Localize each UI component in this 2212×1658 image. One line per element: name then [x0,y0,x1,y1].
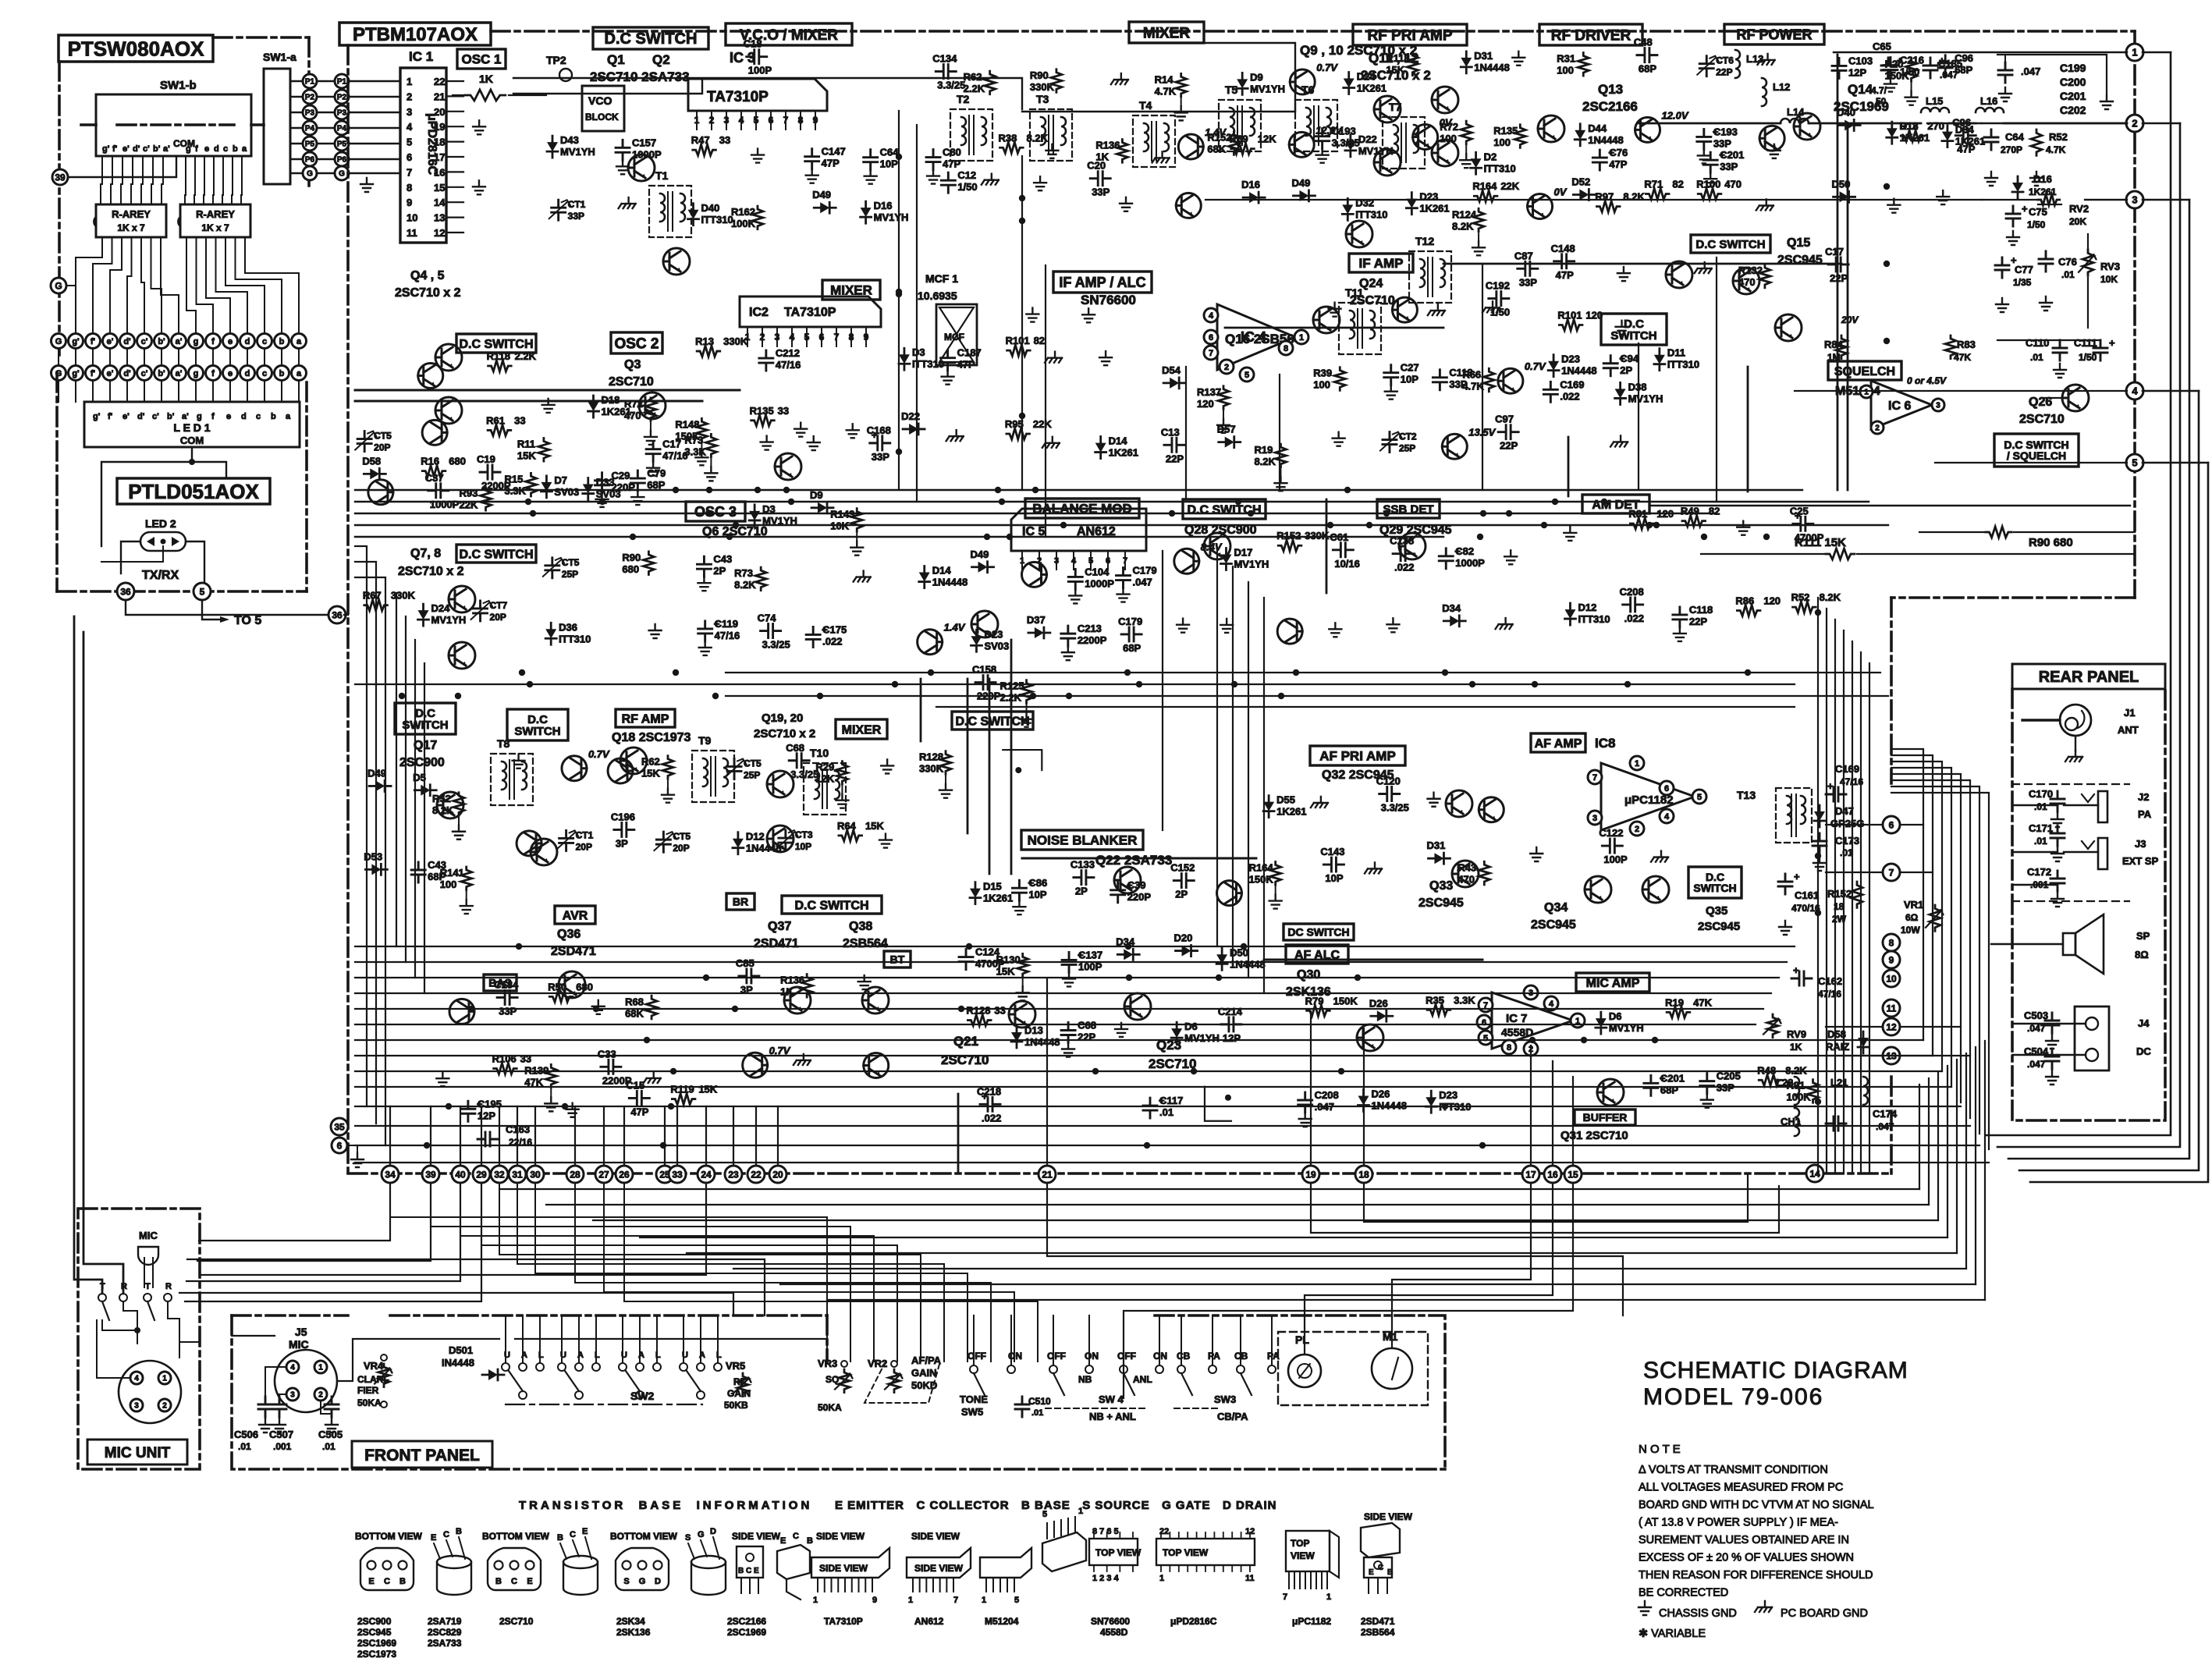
diode D247 [1358,1090,1369,1112]
svg-text:2SD471: 2SD471 [1361,1616,1395,1627]
svg-text:C137: C137 [1078,949,1102,960]
svg-text:R: R [165,1282,172,1291]
resistor R164 [1793,602,1816,612]
ground [1115,1023,1127,1037]
capacitor C299 [1703,152,1717,172]
svg-text:OSC 2: OSC 2 [614,336,659,352]
svg-text:S: S [623,1577,629,1586]
svg-text:20P: 20P [673,843,689,854]
svg-text:47K: 47K [1954,352,1971,363]
svg-text:16: 16 [1547,1169,1558,1180]
label SQUELCH IC6 [1828,361,1901,380]
svg-text:22K: 22K [1500,180,1519,192]
resistor R118 [696,418,707,442]
svg-text:33P: 33P [1519,276,1537,288]
svg-text:33: 33 [672,1169,683,1180]
svg-text:CT5: CT5 [744,758,762,769]
svg-text:150K: 150K [1333,995,1358,1007]
transistor Q17 [437,792,463,818]
capacitor C156 [1393,547,1413,561]
connector pins P1-P6 G left column [290,80,303,82]
transistor Q30 [1357,1024,1383,1051]
resistor R8 [693,144,716,155]
resistor R119 [751,415,775,426]
svg-text:R83: R83 [1957,339,1976,350]
svg-text:C96: C96 [1955,52,1973,64]
svg-text:CT2: CT2 [1399,431,1417,442]
svg-text:J4: J4 [2138,1017,2150,1029]
capacitor C65 4.7/50 [1881,58,1895,78]
svg-text:3.3/25: 3.3/25 [937,80,965,91]
svg-text:1N4448: 1N4448 [1561,365,1597,377]
svg-text:20: 20 [772,1169,783,1180]
svg-text:4558D: 4558D [1501,1026,1533,1038]
capacitor C65 [1938,55,1952,76]
svg-text:100K: 100K [1787,1092,1812,1103]
svg-text:22: 22 [751,1169,762,1180]
svg-text:ITT310: ITT310 [701,214,733,225]
capacitor C201 [1012,880,1026,900]
svg-text:47K: 47K [524,1076,543,1088]
resistor R80 [697,346,720,357]
svg-text:a: a [296,369,302,378]
transistor Q35 [1642,876,1669,903]
svg-text:680: 680 [449,456,466,467]
svg-text:C77: C77 [2015,264,2033,275]
svg-text:C27: C27 [1401,362,1419,374]
label AF AMP IC8 [1531,733,1585,752]
IC U8 uPC1182 opamp [1601,763,1695,830]
svg-text:a': a' [182,412,189,421]
svg-text:SIDE VIEW: SIDE VIEW [914,1563,964,1574]
diode D147 [919,566,930,588]
svg-text:RAIZ: RAIZ [1826,1041,1849,1053]
ground [542,399,555,413]
capacitor C209 [1111,882,1125,903]
svg-text:D17: D17 [1234,546,1252,558]
svg-text:BT: BT [890,953,905,966]
svg-text:22P: 22P [1078,1031,1095,1043]
capacitor C109 [1543,382,1557,402]
svg-text:2: 2 [1635,825,1639,834]
resistor R232 [494,1063,517,1074]
svg-text:e': e' [107,337,114,346]
svg-text:1/35: 1/35 [2013,277,2032,288]
resistor R77 [645,398,656,421]
ground [1530,847,1543,861]
svg-text:a: a [296,337,302,346]
svg-text:R72: R72 [1440,121,1458,133]
svg-text:22P: 22P [1166,453,1184,464]
svg-text:MV1YH: MV1YH [874,211,909,223]
svg-text:T2: T2 [957,93,970,105]
svg-text:2: 2 [318,1391,323,1400]
svg-text:R125: R125 [1000,680,1024,692]
svg-text:SWITCH: SWITCH [514,725,560,738]
capacitor C242 [739,969,759,983]
resistor array R-AREY 1Kx7 #2 [180,204,250,237]
ground [1042,437,1060,448]
svg-text:22: 22 [434,76,445,87]
svg-text:R164: R164 [1249,862,1274,874]
transistor Q39 [531,839,557,865]
svg-text:P2: P2 [305,94,315,102]
wires LED2 [121,541,140,573]
capacitor C74 [595,473,609,493]
svg-text:C133: C133 [1070,859,1095,871]
transistor Q235 [449,999,474,1024]
svg-text:2SC710: 2SC710 [941,1053,989,1067]
capacitor C20 [936,65,956,79]
svg-text:2SC945: 2SC945 [357,1627,392,1638]
svg-text:IC 7: IC 7 [1506,1012,1528,1025]
svg-text:COM: COM [173,138,195,149]
svg-text:TONE: TONE [960,1394,988,1405]
svg-text:15K: 15K [698,1084,717,1095]
svg-text:C213: C213 [1078,623,1102,634]
svg-text:8.2K: 8.2K [1785,1064,1807,1076]
ground [1512,51,1525,66]
svg-text:2P: 2P [1620,364,1632,376]
transformer T10 [804,763,846,815]
svg-text:1: 1 [1078,1507,1083,1516]
svg-text:g': g' [102,144,110,154]
svg-text:T3: T3 [1036,93,1049,105]
svg-text:2SC710 x 2: 2SC710 x 2 [398,565,464,578]
svg-text:C19: C19 [477,453,495,465]
svg-text:C174: C174 [1873,1108,1898,1120]
svg-text:3.3K: 3.3K [1454,994,1475,1006]
svg-text:Q1: Q1 [607,52,625,67]
svg-text:D37: D37 [1027,614,1046,626]
transformer T6 [1295,100,1337,151]
svg-text:P1: P1 [337,78,347,87]
resistor R294 [538,438,549,462]
svg-text:7: 7 [1592,773,1597,783]
diode D155 [1220,548,1231,570]
svg-text:C96: C96 [1952,117,1971,129]
svg-text:R91: R91 [1787,1080,1805,1092]
capacitor C254 [1644,1075,1658,1095]
svg-text:2SC900: 2SC900 [357,1616,392,1627]
svg-text:2200P: 2200P [1078,634,1107,646]
svg-text:B: B [557,1533,563,1543]
resistor R54 [1698,188,1721,199]
svg-text:BOTTOM VIEW: BOTTOM VIEW [355,1531,422,1542]
transistor Q14 [1794,113,1820,140]
capacitor C122 [697,556,711,577]
svg-text:R73: R73 [734,567,753,579]
svg-text:680: 680 [622,563,639,575]
svg-text:270P: 270P [2001,144,2022,155]
svg-text:1N4448: 1N4448 [1474,62,1510,73]
svg-text:D16: D16 [2033,173,2052,185]
svg-text:c: c [262,369,267,378]
resistor R296 [1596,201,1620,212]
capacitor C289 [1090,172,1110,186]
svg-text:MIXER: MIXER [842,723,882,737]
svg-text:B: B [399,1577,406,1586]
svg-text:R95: R95 [1005,418,1024,430]
svg-text:7: 7 [1283,1592,1287,1602]
label D.C SWITCH SQUELCH right [1994,434,2079,467]
svg-text:1N4448: 1N4448 [1024,1036,1060,1048]
svg-text:C17: C17 [1825,246,1844,257]
transistor Q6 [775,453,801,480]
svg-text:R19: R19 [1254,444,1273,456]
svg-text:e': e' [122,144,130,154]
svg-text:18: 18 [1358,1169,1369,1180]
svg-text:D49: D49 [812,189,831,201]
svg-text:COM: COM [180,435,204,446]
svg-text:C196: C196 [611,811,635,822]
transistor Q45 [1528,193,1553,218]
svg-text:J5: J5 [295,1326,307,1338]
legend pkg 2SA719 cylinder [437,1562,471,1595]
inductor L14 [1781,119,1809,123]
svg-text:b': b' [153,144,161,154]
svg-text:CB: CB [1177,1351,1191,1362]
resistor R234 [646,996,657,1019]
capacitor C168 [1623,598,1643,612]
svg-text:19: 19 [1305,1169,1316,1180]
transistor Q9 [1432,87,1458,113]
ground [1756,199,1774,210]
svg-text:B: B [1387,1568,1393,1577]
svg-text:R137: R137 [1197,386,1221,398]
svg-text:C76: C76 [1609,147,1628,158]
transistor Q16 [1313,307,1340,333]
svg-text:L12: L12 [1773,81,1790,93]
capacitor C143 [1068,569,1082,589]
ground [1768,144,1781,158]
svg-text:MIC: MIC [289,1338,309,1351]
svg-text:24: 24 [701,1169,712,1180]
node 39 [52,169,68,185]
svg-text:25P: 25P [562,569,578,580]
svg-text:R143: R143 [830,509,854,520]
svg-text:C214: C214 [1218,1006,1243,1017]
svg-text:68K: 68K [1207,144,1226,155]
ground [649,624,662,638]
svg-text:D14: D14 [1109,435,1128,447]
svg-text:C199: C199 [2060,62,2086,74]
svg-text:R39: R39 [1313,367,1332,379]
svg-text:D.C SWITCH: D.C SWITCH [794,899,868,912]
capacitor C505 .01 [321,1401,332,1414]
svg-text:MIC UNIT: MIC UNIT [105,1445,171,1461]
svg-text:TOP: TOP [1291,1538,1309,1549]
junction dots on buses [1032,487,1039,493]
svg-text:R48: R48 [1757,1064,1776,1076]
svg-text:d': d' [123,369,131,378]
svg-text:PC BOARD GND: PC BOARD GND [1781,1607,1868,1620]
node 2 [2126,115,2143,132]
svg-text:4558D: 4558D [1100,1627,1128,1638]
svg-text:VR5: VR5 [726,1360,745,1372]
svg-text:33P: 33P [1713,137,1731,149]
wire af vertical bundle [1817,598,1819,1173]
svg-text:D.C SWITCH: D.C SWITCH [605,30,698,48]
label NOISE BLANKER [1021,830,1143,850]
svg-text:10K: 10K [2100,274,2118,285]
svg-text:R136: R136 [1095,140,1120,151]
resistor R273 [525,473,536,496]
svg-text:TO 5: TO 5 [234,614,261,627]
svg-text:IN4448: IN4448 [442,1357,474,1369]
svg-text:g': g' [72,337,80,346]
svg-text:C507: C507 [269,1429,293,1440]
diode D206 [1117,949,1139,960]
svg-text:3.3K: 3.3K [504,485,526,496]
diode D126 [545,623,556,644]
svg-text:1/50: 1/50 [1490,307,1510,318]
svg-text:MODEL 79-006: MODEL 79-006 [1643,1384,1823,1410]
svg-text:P5: P5 [337,140,347,149]
jack J1 ANT [2060,705,2091,736]
label BALANCE MOD [1025,499,1139,518]
transistor Q1 [628,154,655,181]
svg-text:TA7310P: TA7310P [784,306,836,319]
transformer T7 [1383,117,1425,169]
svg-text:29: 29 [476,1169,487,1180]
diode D76 [541,476,552,498]
resistor R25 [1176,73,1187,97]
resistor R40 [1407,52,1418,76]
IC U7 4558D opamp [1492,992,1573,1049]
svg-text:34: 34 [385,1169,396,1180]
diode D39 [1573,189,1595,200]
partition dashed [2012,783,2129,785]
resistor R43 [1514,125,1525,148]
svg-text:D54: D54 [1162,364,1181,376]
legend pkg slant 5 [1042,1532,1086,1571]
svg-text:( AT 13.8 V POWER SUPPLY ): ( AT 13.8 V POWER SUPPLY ) IF MEA- [1639,1517,1838,1529]
svg-text:E: E [582,1527,588,1536]
svg-text:.01: .01 [1031,1408,1043,1418]
svg-text:.01: .01 [1159,1106,1173,1118]
svg-text:T11: T11 [1345,286,1364,299]
resistor R259 [1483,368,1494,392]
svg-text:g': g' [72,369,80,378]
svg-text:33P: 33P [1092,186,1110,198]
svg-text:B: B [456,1527,462,1536]
transistor Q25 [1775,314,1802,341]
svg-text:0.7V: 0.7V [1316,62,1338,73]
trimmer CT0 [474,601,488,621]
svg-text:2P: 2P [1175,889,1188,900]
svg-text:MV1YH: MV1YH [1234,558,1269,570]
label D.C SWITCH Q1 Q2 [593,27,708,49]
svg-text:+: + [2022,203,2028,215]
diode D245 [1426,1091,1436,1113]
wire mid horizontals 860-905 [726,672,1880,673]
svg-text:23: 23 [728,1169,739,1180]
svg-text:R52: R52 [2049,131,2068,143]
svg-text:MCF: MCF [944,332,964,343]
node 4 [2126,382,2143,399]
svg-text:Q38: Q38 [849,920,872,933]
ground [1564,527,1576,541]
svg-text:1K261: 1K261 [983,893,1013,904]
svg-text:20V: 20V [1841,314,1859,325]
label BAS [484,975,517,991]
svg-text:8.2K: 8.2K [1820,591,1841,603]
svg-text:+: + [1793,964,1799,976]
svg-text:D7: D7 [554,474,567,486]
wire bottom-left fan to mic/front [199,1183,390,1241]
board PTBM107AOX outline [339,23,491,45]
capacitor C213 [959,950,973,970]
svg-text:TX/RX: TX/RX [142,569,179,582]
diode D175 [414,785,436,796]
svg-text:21: 21 [434,91,445,102]
svg-text:R135: R135 [1493,125,1518,137]
svg-text:R47: R47 [691,134,710,146]
diode D31 [1293,190,1315,201]
wire lower horizontal bundle [355,946,1795,947]
svg-text:ON: ON [1085,1351,1099,1362]
svg-text:.01: .01 [1840,847,1853,858]
svg-text:Q18 2SC1973: Q18 2SC1973 [612,731,691,744]
svg-text:MV1YH: MV1YH [1184,1032,1220,1044]
svg-text:1K261: 1K261 [1109,447,1138,459]
svg-text:47/16: 47/16 [1840,776,1863,787]
svg-text:11: 11 [407,227,417,239]
svg-text:AF AMP: AF AMP [1535,737,1582,751]
capacitor C137 [806,627,820,647]
svg-text:1K: 1K [479,73,493,85]
svg-text:35: 35 [334,1121,345,1132]
transistor Q32 [1446,790,1472,817]
svg-text:f': f' [112,144,118,154]
svg-text:D22: D22 [901,410,920,422]
wire sw2 stubs [505,1315,506,1363]
svg-text:C195: C195 [478,1098,502,1109]
transistor Q139 [1021,562,1046,587]
svg-text:C12: C12 [957,169,976,181]
svg-text:D20: D20 [1174,932,1193,944]
svg-text:15: 15 [434,182,445,193]
svg-text:.047: .047 [1876,1121,1894,1132]
svg-text:D24: D24 [431,602,451,614]
svg-text:REAR PANEL: REAR PANEL [2039,669,2139,686]
svg-text:d: d [245,369,250,378]
svg-text:R136: R136 [780,975,804,986]
svg-text:CB/PA: CB/PA [1217,1411,1248,1422]
staircase wires R-AREY to LED pin circles [76,237,102,334]
svg-text:10P: 10P [1401,374,1418,385]
ground [1737,521,1749,535]
svg-text:1N4448: 1N4448 [1588,134,1624,146]
svg-text:68P: 68P [1660,1084,1678,1095]
transistor Q18 [620,747,647,774]
label D.C SWITCH Q15 [1691,235,1770,253]
svg-text:DC SWITCH: DC SWITCH [1287,926,1349,939]
svg-text:RF AMP: RF AMP [622,712,669,726]
svg-text:8Ω: 8Ω [2135,949,2149,960]
svg-text:L E D 1: L E D 1 [173,421,210,434]
IC U6 M51204 opamp [1871,381,1932,429]
svg-text:R164: R164 [1472,180,1497,192]
label D.C SWITCH mid [952,712,1033,730]
svg-text:R61: R61 [486,414,505,426]
svg-text:CT5: CT5 [673,831,691,842]
capacitor C17 [926,150,940,170]
ground [1152,151,1170,162]
svg-text:c': c' [141,369,148,378]
svg-text:.022: .022 [982,1112,1001,1124]
